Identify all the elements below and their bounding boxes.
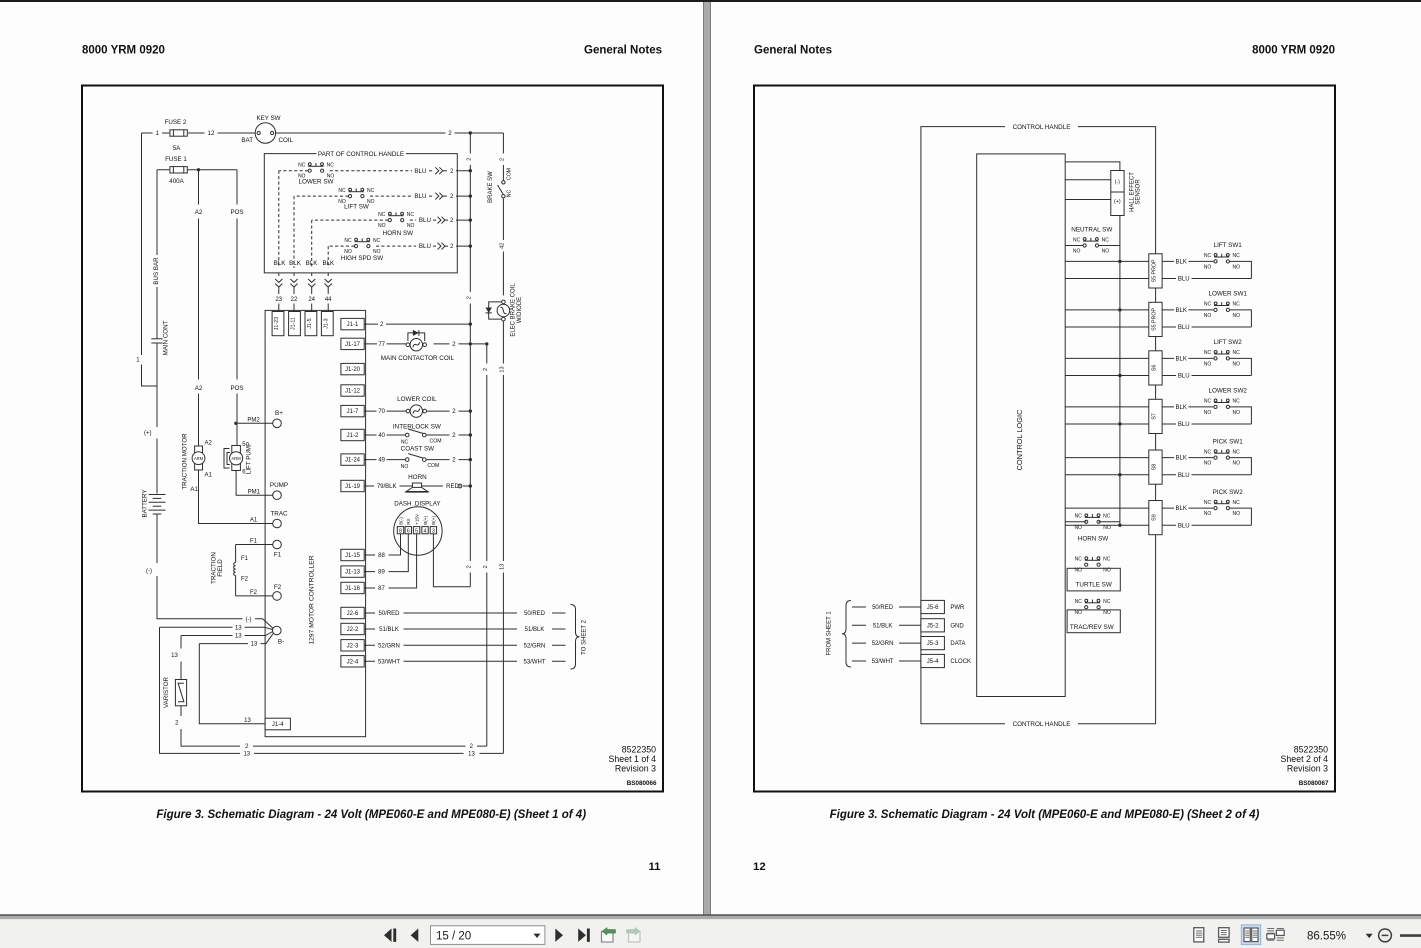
svg-text:3: 3 — [432, 528, 435, 534]
wire 2 right vertical — [486, 344, 488, 746]
svg-text:NO: NO — [1074, 525, 1082, 531]
connector J1-23 — [272, 312, 284, 336]
svg-text:DASH DISPLAY: DASH DISPLAY — [394, 501, 440, 508]
svg-text:13: 13 — [235, 634, 242, 640]
svg-text:CLOCK: CLOCK — [950, 659, 971, 665]
interlock switch — [405, 429, 426, 437]
svg-text:PWR: PWR — [950, 605, 965, 611]
svg-text:NC: NC — [1103, 557, 1111, 563]
svg-text:2: 2 — [466, 158, 472, 161]
switch HORN SW — [388, 212, 404, 221]
svg-text:A2: A2 — [195, 209, 203, 216]
switch LIFT SW — [348, 188, 364, 197]
svg-text:BLK: BLK — [322, 260, 335, 267]
svg-text:LIFT PUMP: LIFT PUMP — [245, 442, 252, 474]
svg-text:(-): (-) — [146, 568, 152, 574]
svg-text:HIGH SPD SW: HIGH SPD SW — [341, 255, 383, 262]
connector arrow wire 44 — [327, 273, 329, 277]
svg-text:86.55%: 86.55% — [1307, 931, 1346, 943]
svg-text:VARISTOR: VARISTOR — [163, 676, 170, 708]
svg-text:NO: NO — [378, 223, 386, 229]
svg-text:53/WHT: 53/WHT — [872, 659, 894, 665]
svg-text:J2-6: J2-6 — [347, 611, 359, 617]
svg-text:NC: NC — [344, 238, 352, 244]
svg-text:LOWER SW: LOWER SW — [299, 178, 334, 185]
neutral switch — [1083, 238, 1099, 247]
svg-text:77: 77 — [378, 342, 385, 348]
svg-text:NC: NC — [1103, 599, 1111, 605]
svg-text:NO: NO — [1233, 264, 1241, 270]
svg-text:J1-17: J1-17 — [345, 342, 361, 348]
switch LIFT SW1 — [1214, 254, 1230, 264]
terminal PUMP — [273, 491, 282, 500]
wire fuse1 row — [157, 169, 237, 171]
svg-text:NO: NO — [1073, 249, 1081, 255]
S box S6 group LIFT SW2 — [1065, 357, 1213, 359]
svg-text:BLU: BLU — [1178, 325, 1190, 331]
continuous view icon — [1219, 928, 1230, 942]
svg-text:NC: NC — [1232, 350, 1240, 356]
battery — [149, 495, 166, 515]
wire J1-1 row — [364, 323, 470, 325]
svg-text:8000 YRM 0920: 8000 YRM 0920 — [1252, 45, 1335, 57]
svg-text:88: 88 — [378, 553, 385, 559]
wire 51/BLK to sheet 2 — [364, 628, 565, 630]
svg-text:PUMP: PUMP — [270, 482, 288, 489]
svg-text:8522350: 8522350 — [622, 745, 656, 755]
svg-text:FUSE 2: FUSE 2 — [165, 119, 187, 126]
svg-text:NC: NC — [1204, 399, 1212, 405]
svg-text:13: 13 — [235, 625, 242, 631]
switch HIGH SPD SW — [354, 238, 370, 247]
svg-text:DATA: DATA — [950, 641, 965, 647]
svg-text:11: 11 — [648, 861, 661, 873]
svg-text:CONTROL HANDLE: CONTROL HANDLE — [1013, 124, 1071, 131]
svg-text:HORN: HORN — [408, 474, 427, 481]
next view button — [627, 928, 641, 943]
control logic box — [977, 154, 1065, 697]
lower coil — [406, 405, 426, 417]
svg-text:J5-4: J5-4 — [927, 659, 939, 665]
svg-text:NC: NC — [1232, 302, 1240, 308]
svg-text:BLK: BLK — [1176, 405, 1187, 411]
svg-text:2: 2 — [448, 130, 452, 137]
wire lower sw dashed — [279, 170, 434, 172]
svg-text:BS080066: BS080066 — [627, 780, 657, 787]
svg-text:PM2: PM2 — [247, 417, 260, 423]
svg-text:NC: NC — [367, 188, 375, 194]
wire 50/RED to sheet 2 — [364, 612, 565, 614]
svg-text:J1-19: J1-19 — [345, 484, 361, 490]
svg-text:NC: NC — [1204, 302, 1212, 308]
svg-text:NO: NO — [1233, 313, 1241, 319]
brake sw branch — [502, 133, 504, 295]
right bus 2 vertical — [469, 133, 471, 587]
varistor — [175, 680, 186, 706]
svg-text:HORN SW: HORN SW — [1078, 536, 1108, 543]
svg-text:TO SHEET 2: TO SHEET 2 — [582, 619, 588, 654]
svg-text:CONTROL HANDLE: CONTROL HANDLE — [1013, 721, 1071, 728]
svg-text:51/BLK: 51/BLK — [873, 623, 893, 629]
wire F1 row — [236, 544, 273, 546]
svg-text:NC: NC — [407, 212, 415, 218]
svg-text:SENSOR: SENSOR — [1136, 179, 1142, 205]
svg-text:4: 4 — [423, 528, 426, 534]
connector J1-11 — [289, 312, 301, 336]
svg-text:F1: F1 — [250, 539, 258, 545]
S box S8 group PICK SW1 — [1065, 457, 1213, 459]
dash display pin wires — [364, 534, 400, 555]
wire PM2 to B+ — [236, 422, 273, 424]
svg-text:70: 70 — [378, 409, 385, 415]
svg-text:(-): (-) — [246, 617, 252, 623]
svg-text:13: 13 — [251, 642, 258, 648]
svg-text:Sheet 1 of 4: Sheet 1 of 4 — [609, 754, 657, 764]
svg-text:PM1: PM1 — [248, 489, 261, 495]
svg-text:TRACTION MOTOR: TRACTION MOTOR — [181, 433, 188, 490]
svg-text:MAIN CONT: MAIN CONT — [163, 320, 170, 355]
svg-text:51/BLK: 51/BLK — [379, 627, 399, 633]
svg-text:BUS BAR: BUS BAR — [153, 257, 160, 285]
bus bar wire — [156, 170, 158, 494]
svg-text:PICK SW2: PICK SW2 — [1213, 489, 1244, 496]
svg-text:F2: F2 — [274, 584, 282, 591]
figure 1 border — [82, 86, 663, 792]
svg-text:NO: NO — [1103, 525, 1111, 531]
svg-text:J1-5: J1-5 — [307, 318, 313, 328]
battery negative wire — [157, 514, 273, 628]
svg-text:50/RED: 50/RED — [378, 611, 400, 617]
svg-text:LIFT SW1: LIFT SW1 — [1214, 242, 1243, 249]
fuse FU2 5A — [170, 130, 187, 136]
switch PICK SW1 — [1214, 450, 1230, 460]
svg-text:LOWER SW1: LOWER SW1 — [1208, 291, 1247, 298]
connector J2-2 — [341, 623, 364, 634]
svg-text:24: 24 — [308, 297, 315, 303]
wire 52/GRN to sheet 2 — [364, 644, 565, 646]
main contactor tips MAIN CONT — [151, 339, 162, 343]
svg-text:52/GRN: 52/GRN — [524, 643, 546, 649]
first page button — [384, 929, 396, 942]
wire J1-24 row coast sw — [364, 459, 470, 461]
svg-text:13: 13 — [243, 752, 250, 758]
trac rev switch — [1085, 599, 1101, 609]
svg-text:BATTERY: BATTERY — [142, 490, 149, 518]
svg-text:RED: RED — [446, 484, 459, 490]
wire A1 to TRAC — [199, 470, 273, 524]
svg-text:A1: A1 — [190, 486, 198, 493]
svg-text:NC: NC — [298, 163, 306, 169]
svg-text:NO: NO — [407, 223, 415, 229]
svg-text:BAT: BAT — [241, 137, 253, 144]
svg-text:+15V: +15V — [414, 513, 419, 525]
svg-text:S8: S8 — [1151, 464, 1157, 471]
elec brake coil with diode — [497, 300, 510, 321]
svg-text:J1-16: J1-16 — [345, 586, 361, 592]
svg-text:400A: 400A — [169, 178, 184, 185]
svg-text:53/WHT: 53/WHT — [523, 659, 545, 665]
svg-text:J1-23: J1-23 — [274, 317, 280, 330]
svg-text:8: 8 — [399, 528, 402, 534]
svg-text:87: 87 — [378, 586, 385, 592]
svg-text:Figure 3. Schematic Diagram -: Figure 3. Schematic Diagram - 24 Volt (M… — [830, 809, 1260, 821]
svg-text:15 / 20: 15 / 20 — [436, 931, 471, 943]
svg-text:NC: NC — [1204, 253, 1212, 259]
svg-text:J1-12: J1-12 — [345, 389, 361, 395]
svg-text:BLU: BLU — [419, 243, 431, 250]
svg-text:PART OF CONTROL HANDLE: PART OF CONTROL HANDLE — [318, 151, 404, 158]
svg-text:B(-): B(-) — [398, 517, 403, 525]
svg-text:NC: NC — [1232, 253, 1240, 259]
svg-text:NO: NO — [401, 464, 409, 470]
svg-text:1: 1 — [156, 130, 160, 137]
horn switch page2 — [1085, 514, 1101, 524]
wire 1 left vertical — [142, 133, 158, 386]
next page button — [555, 929, 563, 942]
svg-text:BLK: BLK — [1176, 308, 1187, 314]
svg-text:NO: NO — [1204, 361, 1212, 367]
svg-text:23: 23 — [275, 297, 282, 303]
svg-text:GND: GND — [950, 623, 964, 629]
svg-text:TRAC: TRAC — [270, 510, 288, 517]
S box S5 PROP group LIFT SW1 — [1065, 260, 1213, 262]
wire J1-19 horn row — [364, 485, 470, 487]
svg-text:ELEC BRAKE COIL: ELEC BRAKE COIL — [511, 283, 517, 337]
connector J1-24 — [341, 454, 364, 465]
svg-text:F2: F2 — [241, 576, 249, 582]
terminal F1 — [273, 540, 282, 549]
S box S7 group LOWER SW2 — [1065, 406, 1213, 408]
svg-text:LOWER COIL: LOWER COIL — [397, 396, 437, 403]
svg-text:POS: POS — [230, 209, 243, 216]
svg-text:2: 2 — [483, 565, 489, 568]
connector J1-5 — [305, 312, 317, 336]
wire horn sw dashed — [312, 219, 437, 221]
svg-text:13: 13 — [499, 564, 505, 570]
svg-text:5A: 5A — [173, 145, 181, 152]
svg-text:FIELD: FIELD — [217, 559, 224, 577]
svg-text:NO: NO — [1204, 410, 1212, 416]
svg-text:49: 49 — [378, 458, 385, 464]
svg-text:NO: NO — [1233, 361, 1241, 367]
svg-text:NO: NO — [1233, 461, 1241, 467]
svg-text:NC: NC — [1073, 237, 1081, 243]
terminal F2 — [273, 592, 282, 601]
svg-text:(+): (+) — [1114, 199, 1121, 205]
svg-text:NC: NC — [401, 440, 409, 446]
fuse FU1 400A — [170, 167, 187, 173]
svg-text:NC: NC — [1232, 500, 1240, 506]
connector J1-7 — [341, 405, 364, 416]
svg-text:BLK: BLK — [1176, 506, 1187, 512]
svg-text:S6: S6 — [1151, 365, 1157, 372]
svg-text:J1-13: J1-13 — [345, 570, 361, 576]
svg-text:2: 2 — [483, 368, 489, 371]
dash display pin 5 +15V — [413, 527, 419, 534]
connector arrow wire 22 — [293, 273, 295, 277]
svg-text:NC: NC — [338, 188, 346, 194]
svg-text:J1-2: J1-2 — [347, 433, 359, 439]
wire 13 right vertical — [502, 321, 504, 754]
connector J1-15 — [341, 549, 364, 560]
svg-text:53/WHT: 53/WHT — [378, 659, 400, 665]
svg-text:J1-1: J1-1 — [347, 322, 359, 328]
brake switch — [498, 181, 506, 198]
svg-text:COM: COM — [427, 463, 439, 469]
svg-text:NO: NO — [1204, 264, 1212, 270]
svg-text:2: 2 — [499, 158, 505, 161]
svg-text:B+: B+ — [275, 410, 283, 417]
turtle switch — [1085, 557, 1101, 567]
svg-text:NC: NC — [378, 212, 386, 218]
page divider — [703, 2, 711, 915]
S box S9 group PICK SW2 — [1065, 507, 1213, 509]
svg-text:A2: A2 — [205, 441, 213, 447]
horn speaker — [406, 483, 428, 492]
svg-text:B(+): B(+) — [423, 516, 428, 525]
two page view icon selected — [1241, 925, 1260, 945]
page number box — [431, 926, 545, 945]
svg-text:Revision 3: Revision 3 — [615, 764, 656, 774]
svg-text:50/RED: 50/RED — [524, 611, 546, 617]
single page view icon — [1194, 928, 1204, 942]
sensor drop vertical — [1119, 216, 1121, 526]
svg-text:BLU: BLU — [1178, 422, 1190, 428]
svg-text:BLU: BLU — [414, 168, 426, 175]
svg-text:General Notes: General Notes — [754, 45, 832, 57]
main contactor coil — [406, 339, 426, 351]
svg-text:FUSE 1: FUSE 1 — [165, 156, 187, 163]
svg-text:NO: NO — [1204, 511, 1212, 517]
svg-text:COM: COM — [430, 438, 442, 444]
connector J5-3 — [921, 637, 945, 650]
switch LIFT SW2 — [1214, 351, 1230, 361]
svg-text:F1: F1 — [241, 556, 249, 562]
svg-text:NC: NC — [1204, 449, 1212, 455]
svg-text:13: 13 — [468, 752, 475, 758]
wire high spd sw dashed — [328, 245, 437, 247]
svg-text:22: 22 — [291, 297, 298, 303]
svg-text:ARM: ARM — [194, 456, 204, 461]
svg-text:BS080067: BS080067 — [1299, 780, 1329, 787]
traction motor — [195, 446, 203, 470]
svg-text:52/GRN: 52/GRN — [378, 643, 400, 649]
wire 13 left column — [160, 627, 504, 753]
svg-text:Revision 3: Revision 3 — [1287, 764, 1328, 774]
svg-text:J2-3: J2-3 — [347, 643, 359, 649]
svg-text:(-): (-) — [1115, 180, 1121, 186]
connector J1-16 — [341, 582, 364, 593]
svg-text:BLU: BLU — [419, 217, 431, 224]
svg-text:NC: NC — [1102, 237, 1110, 243]
svg-text:BRAKE SW: BRAKE SW — [488, 171, 494, 203]
connector J5-2 — [921, 619, 945, 632]
svg-text:J5-6: J5-6 — [927, 605, 939, 611]
svg-text:A1: A1 — [205, 473, 213, 479]
svg-text:BLK: BLK — [1176, 357, 1187, 363]
connector J1-2 — [341, 429, 364, 440]
part of control handle box — [264, 154, 457, 273]
svg-text:F2: F2 — [250, 590, 258, 596]
svg-text:NC: NC — [1103, 514, 1111, 520]
svg-text:13: 13 — [171, 653, 178, 659]
svg-text:NC: NC — [373, 238, 381, 244]
svg-text:NEUTRAL SW: NEUTRAL SW — [1071, 227, 1112, 234]
right page sheet — [711, 2, 1421, 915]
connector J2-6 — [341, 607, 364, 618]
svg-text:LOWER SW2: LOWER SW2 — [1208, 388, 1247, 395]
svg-text:B-: B- — [278, 639, 284, 646]
svg-text:BLU: BLU — [1178, 374, 1190, 380]
svg-text:PICK SW1: PICK SW1 — [1213, 438, 1244, 445]
connector J1-13 — [341, 566, 364, 577]
last page button — [578, 929, 590, 942]
svg-text:Sheet 2 of 4: Sheet 2 of 4 — [1281, 754, 1329, 764]
svg-text:HORN SW: HORN SW — [383, 230, 413, 237]
svg-text:W/DIODE: W/DIODE — [517, 297, 523, 323]
dash display pin 3 B(+) — [430, 527, 436, 534]
svg-text:J1-4: J1-4 — [272, 722, 284, 728]
connector J1-17 — [341, 338, 364, 349]
svg-text:5: 5 — [415, 528, 418, 534]
svg-text:NO: NO — [1233, 410, 1241, 416]
svg-text:89: 89 — [378, 570, 385, 576]
svg-text:Figure 3. Schematic Diagram -: Figure 3. Schematic Diagram - 24 Volt (M… — [156, 809, 586, 821]
svg-text:S5 PROP: S5 PROP — [1151, 259, 1157, 282]
svg-text:J1-11: J1-11 — [291, 317, 297, 330]
key switch — [255, 123, 275, 143]
svg-text:42: 42 — [499, 243, 505, 249]
wire J1-17 row — [364, 343, 487, 345]
coast switch — [405, 454, 426, 462]
svg-text:S7: S7 — [1151, 413, 1157, 420]
svg-text:BLK: BLK — [289, 260, 302, 267]
wire J1-2 row interlock sw — [364, 434, 470, 436]
svg-text:General Notes: General Notes — [584, 45, 662, 57]
svg-text:NO: NO — [1204, 313, 1212, 319]
svg-text:S9: S9 — [1151, 514, 1157, 521]
svg-text:(+): (+) — [144, 431, 152, 437]
zoom out button — [1379, 929, 1392, 942]
svg-text:40: 40 — [378, 433, 385, 439]
dash display pin 8 B(-) — [397, 527, 403, 534]
svg-text:FROM SHEET 1: FROM SHEET 1 — [827, 611, 833, 656]
svg-text:NO: NO — [1102, 249, 1110, 255]
svg-text:A1: A1 — [250, 518, 258, 524]
terminal B- — [273, 626, 282, 635]
svg-text:NO: NO — [1103, 610, 1111, 616]
svg-text:F1: F1 — [274, 552, 282, 559]
svg-text:LIFT SW2: LIFT SW2 — [1214, 339, 1243, 346]
connector J2-3 — [341, 640, 364, 651]
svg-text:TRAC/REV SW: TRAC/REV SW — [1070, 624, 1114, 631]
wire J1-4 branch — [199, 644, 265, 724]
svg-text:NC: NC — [327, 163, 335, 169]
svg-text:B(+): B(+) — [431, 516, 436, 525]
svg-text:NC: NC — [1232, 399, 1240, 405]
wire F2 row — [236, 595, 273, 597]
svg-text:J5-3: J5-3 — [927, 641, 939, 647]
svg-text:BLK: BLK — [306, 260, 319, 267]
wire J1-7 row lower coil — [364, 410, 470, 412]
svg-text:NC: NC — [507, 190, 513, 198]
svg-text:50/RED: 50/RED — [872, 605, 894, 611]
svg-text:HALL EFFECT: HALL EFFECT — [1129, 172, 1135, 212]
svg-text:79/BLK: 79/BLK — [377, 484, 397, 490]
svg-text:NC: NC — [1232, 449, 1240, 455]
zoom slider — [1400, 934, 1421, 937]
svg-text:NO: NO — [1233, 511, 1241, 517]
